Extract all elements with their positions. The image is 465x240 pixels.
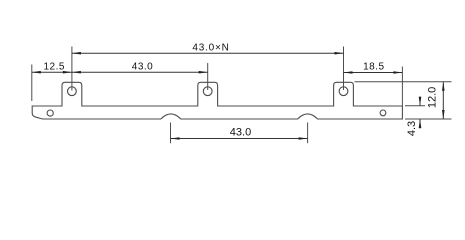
extension line tab top right: [355, 81, 452, 83]
arrow 43.0 bottom right: [299, 137, 308, 140]
arrow 43.0 bottom left: [171, 137, 180, 140]
centerline tab1: [71, 47, 73, 91]
arrow 12.5 left: [32, 71, 41, 74]
small hole right: [380, 110, 386, 116]
arrow 43.0 top left: [72, 71, 81, 74]
arrow 43.0 top right: [199, 71, 208, 74]
tab hole H3: [339, 87, 348, 96]
dimension 4.3 top arrow: [419, 97, 421, 106]
dimension line 43.0 top: [72, 71, 208, 73]
centerline tab2: [207, 63, 209, 90]
tab hole H2: [203, 87, 212, 96]
svg-text:43.0: 43.0: [230, 127, 251, 139]
dimension 4.3 bottom arrow: [419, 119, 421, 129]
arrow 18.5 left: [344, 71, 353, 74]
arrow 12.0 bottom: [442, 110, 445, 119]
small hole left: [47, 110, 53, 116]
arrow 18.5 right: [393, 71, 402, 74]
arrow 12.5 right: [63, 71, 72, 74]
dimension line 43.0 bottom: [171, 138, 308, 140]
extension line right end (x=402.4): [401, 67, 403, 107]
extension line left end (x=31.8): [31, 65, 33, 102]
extension line strip top right: [405, 105, 425, 107]
arrow 12.0 top: [442, 82, 445, 91]
svg-text:18.5: 18.5: [363, 62, 384, 73]
svg-text:43.0: 43.0: [132, 62, 153, 73]
arrow 43.0xN left: [72, 52, 81, 55]
dimension line 43.0xN: [72, 52, 344, 54]
arrow 43.0xN right: [335, 52, 344, 55]
svg-text:4.3: 4.3: [406, 121, 418, 136]
svg-text:43.0×N: 43.0×N: [192, 42, 229, 53]
tab hole H1: [68, 87, 77, 96]
svg-text:12.0: 12.0: [426, 87, 438, 108]
centerline tab3: [343, 47, 345, 91]
part outline: [32, 82, 402, 119]
svg-text:12.5: 12.5: [43, 62, 64, 73]
dimension line 12.5: [32, 71, 72, 73]
extension line strip bottom right: [405, 118, 452, 120]
extension line bump1: [170, 123, 172, 144]
extension line bump2: [307, 123, 309, 144]
dimension line 12.0 vertical: [442, 82, 444, 119]
dimension line 18.5: [344, 72, 403, 74]
